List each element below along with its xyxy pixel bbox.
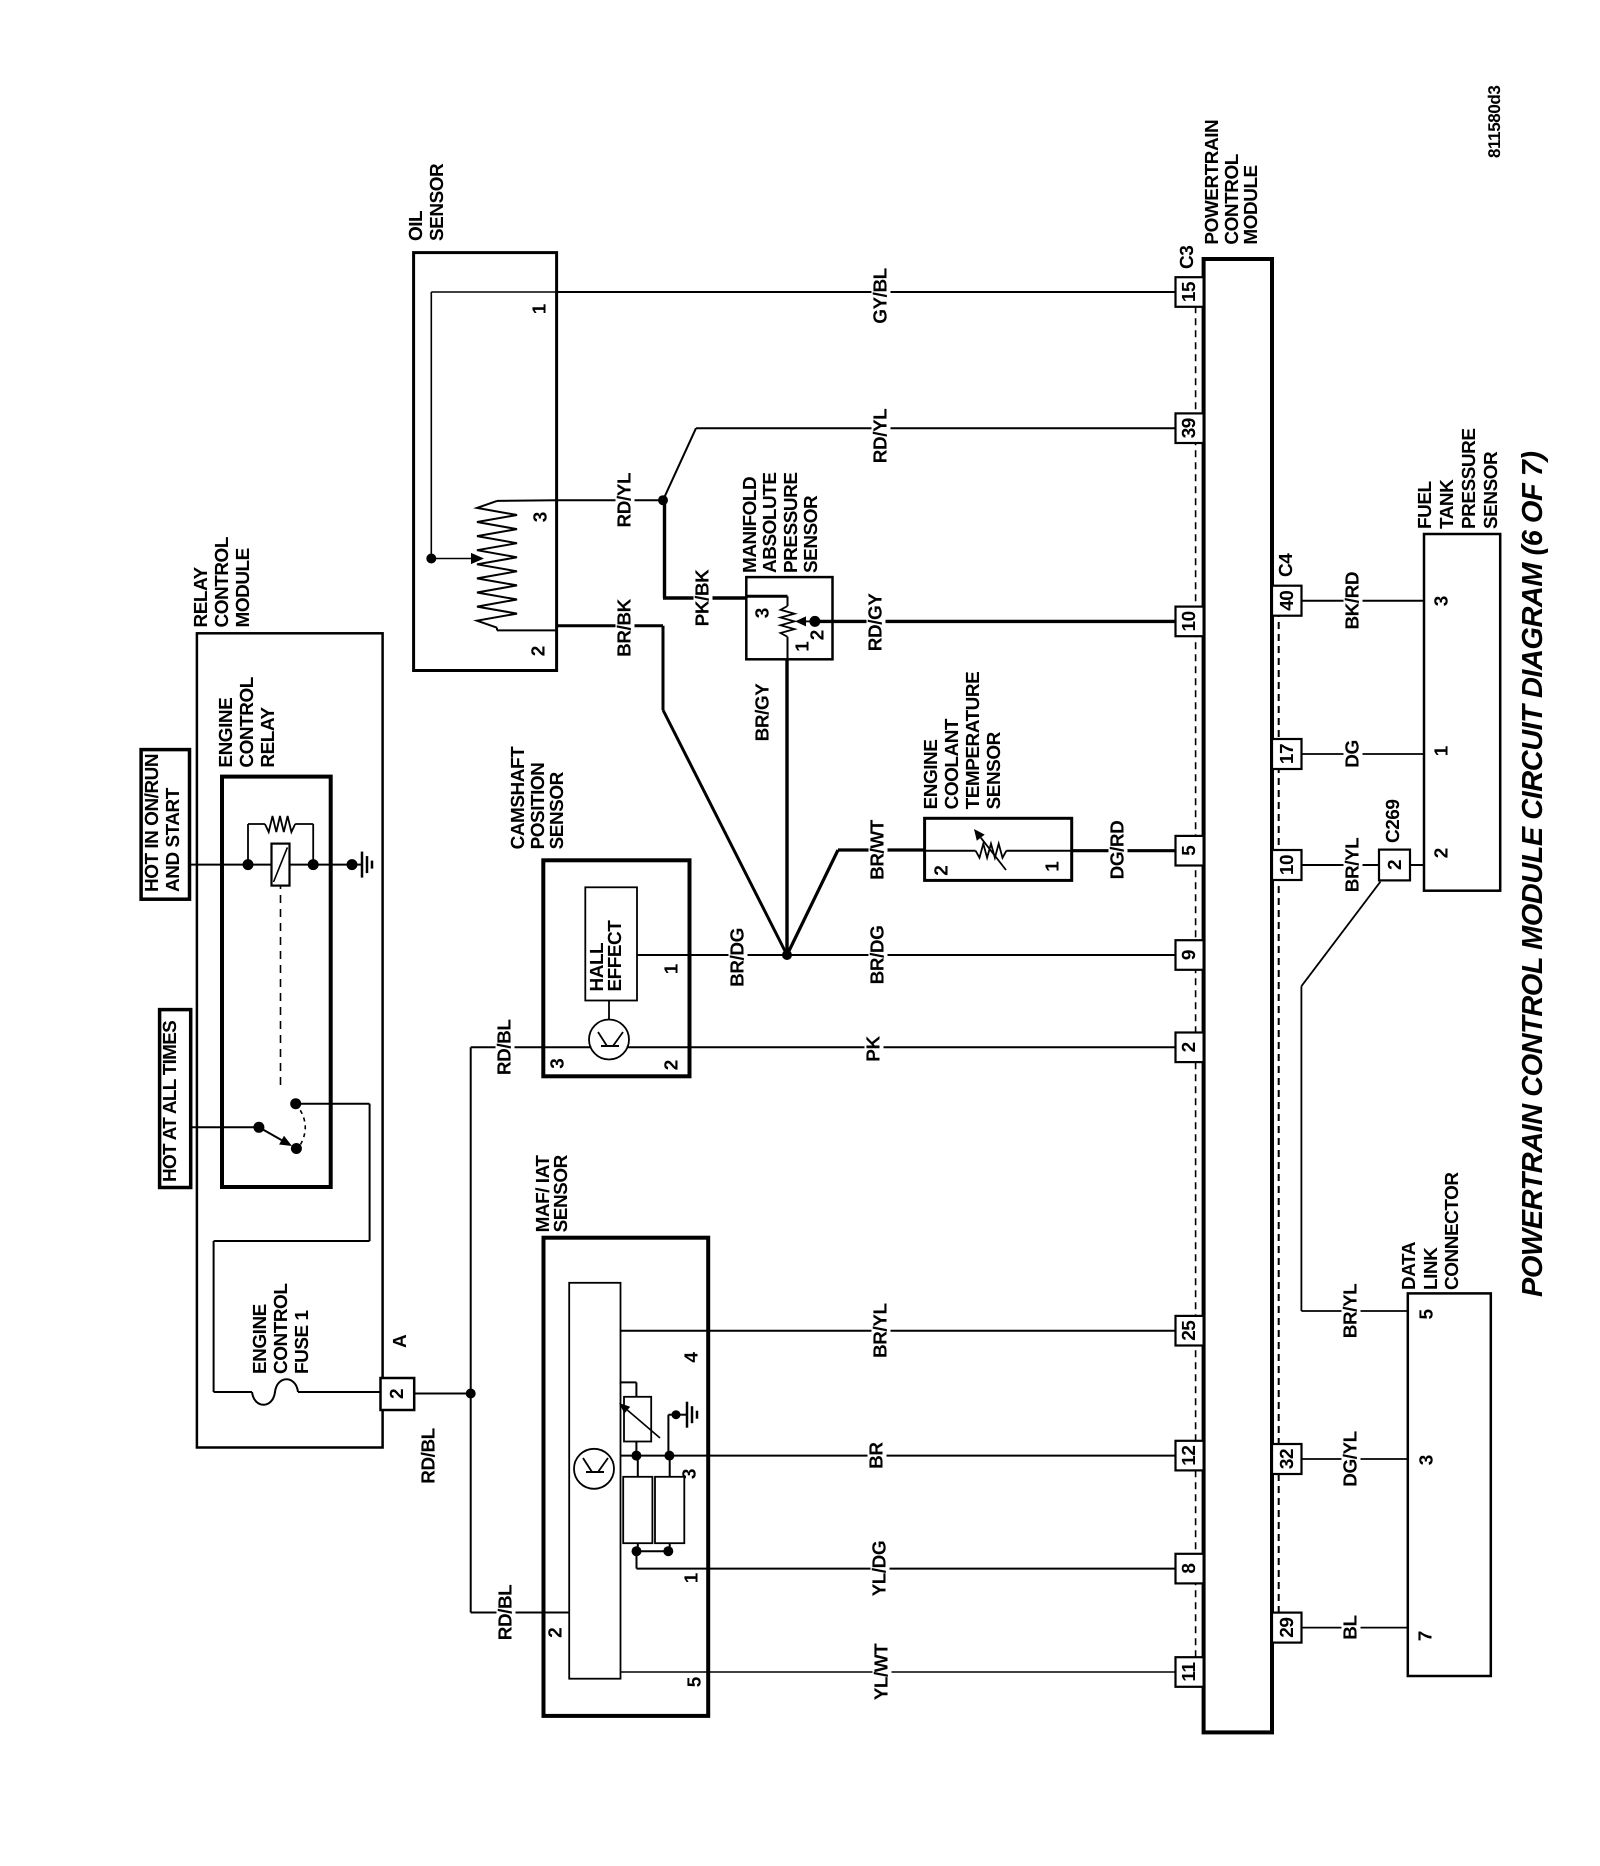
wire BR/YL PCM C4-10 to connector C269 <box>1302 864 1380 866</box>
pin label MAF pin4 <box>683 1352 702 1363</box>
pin label 17 C4 <box>1278 739 1297 769</box>
MAF pin1 link <box>636 1551 638 1568</box>
relay coil <box>272 844 290 886</box>
MAP internal pin3 wire <box>746 595 787 598</box>
wire RD/BL to camshaft pin3 <box>471 1046 544 1048</box>
pin label MAF pin1 <box>683 1573 702 1584</box>
pin label MAP pin3 <box>754 608 773 619</box>
pin label 10 C4 <box>1278 850 1297 880</box>
manifold absolute pressure sensor box <box>746 577 832 659</box>
pin label 32 C4 <box>1278 1444 1297 1474</box>
wire DG/YL PCM C4-32 to DLC pin3 <box>1302 1458 1408 1460</box>
relay parallel resistor <box>265 816 295 832</box>
wire hot-in-run feed to relay coil <box>190 864 272 866</box>
camshaft transistor marks <box>601 1045 619 1047</box>
MAP internal pin1 stub <box>787 637 789 660</box>
pin label fuel tank pin3 <box>1433 596 1452 607</box>
wire YL/WT MAF pin5 to PCM C3-11 <box>621 1671 1176 1673</box>
oil sensor pin3 stub <box>497 499 557 502</box>
MAF inner box <box>569 1283 620 1679</box>
MAF resistor right stubs <box>637 1456 639 1477</box>
PCM connector C3 dashed line <box>1195 292 1197 1657</box>
pin label oil pin3 <box>532 512 551 523</box>
wire label BR/DG <box>868 923 887 988</box>
pin label fuel tank pin1 <box>1433 746 1452 757</box>
oil sensor box <box>414 253 557 671</box>
wire RD/GY MAP pin2 to PCM C3-10 <box>815 620 1176 623</box>
wire label PK/BK <box>694 567 713 630</box>
wire label BR/YL <box>1343 835 1362 896</box>
relay coil to ground wire <box>290 864 353 866</box>
MAF resistor lower <box>655 1477 684 1543</box>
label data link connector <box>1399 1172 1464 1290</box>
MAF internal bus <box>621 1455 670 1457</box>
MAF/IAT sensor box <box>544 1238 709 1716</box>
wire hot-at-all-times feed to relay switch <box>191 1126 259 1128</box>
oil sensor pin2 stub <box>496 628 498 631</box>
MAP wiper arrow <box>806 620 815 622</box>
relay actuation dashed line <box>280 886 282 1085</box>
pin label DLC pin3 <box>1418 1455 1437 1466</box>
pin 10 C3 <box>1176 607 1204 637</box>
wire RD/YL oil pin3 segment <box>557 499 663 501</box>
label MAF/IAT sensor <box>535 1155 571 1232</box>
wire RD/BL fuse pin2 stub <box>414 1393 471 1395</box>
pin 10 C4 <box>1272 850 1302 880</box>
wire label RD/BL <box>420 1425 439 1487</box>
MAF resistor upper <box>623 1477 652 1543</box>
label connector C3 <box>1177 246 1198 269</box>
wire label RD/YL <box>872 406 891 467</box>
wire YL/DG MAF pin1 to PCM C3-8 <box>637 1568 1176 1570</box>
wire label BR/DG <box>728 925 747 990</box>
pin 39 C3 <box>1176 413 1204 443</box>
wire BR/DG junction to PCM C3-9 <box>787 954 1176 956</box>
relay switch NO contact node <box>291 1143 302 1154</box>
wire BR/BK diagonal to junction <box>663 710 787 955</box>
MAF left bus <box>637 1550 669 1552</box>
node MAF bus lower <box>664 1451 674 1461</box>
hot in on/run and start box <box>141 750 189 900</box>
hall effect box <box>585 887 637 1000</box>
pin label camshaft pin3 <box>549 1058 568 1069</box>
wire label RD/BL <box>496 1017 515 1079</box>
pin label oil pin2 <box>530 646 549 657</box>
pin label 39 C3 <box>1180 413 1199 443</box>
oil sensor wiper arrow <box>431 558 471 560</box>
wire BR/YL horizontal run <box>1300 986 1302 1311</box>
label manifold absolute pressure sensor <box>741 472 823 573</box>
data link connector box <box>1408 1293 1491 1676</box>
wire RD/YL diagonal <box>663 428 696 500</box>
MAF resistor left stubs <box>637 1543 639 1551</box>
pin 11 C3 <box>1176 1657 1204 1687</box>
label fuel tank pressure sensor <box>1415 428 1503 529</box>
label connector C269 <box>1383 800 1404 843</box>
pin label fuel tank pin2 <box>1433 848 1452 859</box>
label hall effect <box>589 921 625 992</box>
camshaft internal pin2 wire <box>627 1046 690 1048</box>
wire label DG/RD <box>1108 818 1127 883</box>
pin 2 connector C269 <box>1379 850 1410 881</box>
oil sensor internal wire pin1 <box>431 291 556 293</box>
pin 40 C4 <box>1272 586 1302 616</box>
node MAF bus upper <box>631 1451 641 1461</box>
node RD/YL junction <box>658 495 668 505</box>
wire BR/YL MAF pin4 to PCM C3-25 <box>621 1330 1176 1332</box>
wire label BR <box>868 1439 887 1471</box>
pin label 5 C3 <box>1180 836 1199 866</box>
wire label YL/WT <box>873 1641 892 1704</box>
node MAF left bus lower <box>663 1546 673 1556</box>
engine control relay box <box>222 777 331 1187</box>
fuse feed wire upper <box>214 1391 252 1393</box>
wire BR/DG camshaft pin1 to junction <box>637 954 787 956</box>
wire label DG <box>1343 737 1362 771</box>
wire BR/BK oil pin2 <box>557 624 663 627</box>
pin label 12 C3 <box>1180 1441 1199 1471</box>
camshaft hall box pin1 wire <box>637 954 690 956</box>
pin label MAP pin2 <box>809 630 828 641</box>
pin label oil pin1 <box>531 304 550 315</box>
label connector A <box>390 1335 411 1348</box>
pin label 2 fuse <box>388 1378 407 1410</box>
MAF variable resistor (IAT element) <box>624 1397 651 1442</box>
wire BR/WT diagonal junction to ECT <box>787 850 838 955</box>
wire DG/RD ECT pin1 to PCM C3-5 <box>1072 849 1176 852</box>
MAF transistor circle <box>574 1449 614 1489</box>
wire RD/BL trunk <box>470 1047 472 1612</box>
pin label 29 C4 <box>1278 1613 1297 1643</box>
wire BK/RD PCM C4-40 to fuel tank sensor pin3 <box>1302 600 1425 602</box>
node MAF left bus upper <box>632 1546 642 1556</box>
label engine control fuse 1 <box>250 1284 313 1374</box>
wire label BR/YL <box>872 1300 891 1361</box>
node BR junction <box>782 950 792 960</box>
pin label camshaft pin1 <box>662 964 681 975</box>
wire label BR/GY <box>753 681 772 745</box>
PCM connector C4 dashed line <box>1278 594 1280 1613</box>
wire label BR/WT <box>869 817 888 883</box>
document code 811580d3 <box>1485 86 1505 158</box>
pin label 8 C3 <box>1180 1554 1199 1584</box>
wire BR/YL down to DLC pin5 <box>1301 1310 1407 1312</box>
wire BR/GY MAP pin1 to junction <box>785 659 788 955</box>
label hot in on/run and start <box>142 754 184 892</box>
wire label GY/BL <box>871 265 890 327</box>
MAF variable resistor left stub <box>635 1442 637 1456</box>
pin 15 C3 <box>1176 277 1204 307</box>
label engine coolant temperature sensor <box>921 672 1005 810</box>
ECT internal wire <box>925 850 976 852</box>
ECT thermistor resistor <box>976 844 1007 858</box>
label connector C4 <box>1276 554 1297 577</box>
ground relay <box>350 864 362 866</box>
pin label MAP pin1 <box>794 641 813 652</box>
relay ground node <box>347 859 358 870</box>
pin label 2 C269 <box>1386 850 1405 881</box>
camshaft internal pin3 wire <box>543 1046 591 1048</box>
fuel tank pressure sensor box <box>1424 534 1500 891</box>
ECT thermistor arrow <box>981 838 1006 870</box>
label oil sensor <box>406 164 448 241</box>
pin label 15 C3 <box>1180 277 1199 307</box>
pin label 10 C3 <box>1180 607 1199 637</box>
wire label BK/RD <box>1343 569 1362 633</box>
pin label 2 C3 <box>1180 1033 1199 1063</box>
node RD/BL junction <box>466 1389 476 1399</box>
pin label camshaft pin2 <box>662 1060 681 1071</box>
label hot at all times <box>160 1021 181 1182</box>
pin label DLC pin5 <box>1418 1309 1437 1320</box>
label powertrain control module <box>1203 120 1262 245</box>
wire label RD/YL <box>616 470 635 531</box>
wire PK camshaft pin2 to PCM C3-2 <box>690 1046 1176 1048</box>
wire BL PCM C4-29 to DLC pin7 <box>1302 1627 1408 1629</box>
label camshaft position sensor <box>509 747 568 850</box>
pin label 25 C3 <box>1180 1316 1199 1346</box>
pin label ECT pin2 <box>932 865 951 876</box>
wire label BL <box>1342 1612 1361 1642</box>
MAF variable resistor to inner box stub <box>635 1382 637 1396</box>
pin 25 C3 <box>1176 1316 1204 1346</box>
MAF ground link <box>667 1415 669 1456</box>
relay resistor loop <box>247 824 249 865</box>
wire label YL/DG <box>871 1538 890 1600</box>
camshaft position sensor box <box>543 860 689 1076</box>
label engine control relay <box>216 677 279 767</box>
wire DG PCM C4-17 to fuel tank sensor pin1 <box>1302 753 1425 755</box>
MAF ground node <box>672 1410 681 1419</box>
relay switch arm arrow <box>259 1127 282 1140</box>
hot at all times box <box>160 1010 191 1188</box>
engine coolant temperature sensor box <box>925 818 1072 880</box>
relay switch common node <box>253 1122 264 1133</box>
wire label BR/YL <box>1342 1281 1361 1342</box>
ground MAF <box>675 1414 687 1416</box>
camshaft hall box lead <box>608 1001 610 1020</box>
pin 2 C3 <box>1176 1033 1204 1063</box>
relay switch NC contact node <box>290 1098 301 1109</box>
MAF ground stub <box>668 1414 680 1416</box>
camshaft hall-cell transistor circle <box>589 1020 629 1060</box>
powertrain control module box <box>1204 259 1272 1732</box>
wire label RD/GY <box>867 591 886 655</box>
pin 8 C3 <box>1176 1554 1204 1584</box>
MAP sensor resistor <box>781 606 795 637</box>
wire RD/YL to PCM C3-39 <box>696 427 1176 429</box>
pin label 40 C4 <box>1278 586 1297 616</box>
label relay control module <box>191 537 254 627</box>
pin 29 C4 <box>1272 1613 1302 1643</box>
fuse output wire to pin2 <box>298 1391 381 1393</box>
relay coil diagonal <box>274 847 288 882</box>
pin 2 fuse output connector <box>381 1378 415 1410</box>
pin 9 C3 <box>1176 940 1204 970</box>
pin 5 C3 <box>1176 836 1204 866</box>
pin label 9 C3 <box>1180 940 1199 970</box>
wire PK/BK junction to MAP pin3 <box>663 500 666 598</box>
wire C269 to fuel tank sensor pin2 <box>1410 864 1424 866</box>
MAP wiper node <box>809 616 820 627</box>
relay control module box <box>197 633 383 1447</box>
oil sensor wiper node <box>426 554 436 564</box>
oil sensor potentiometer resistor <box>477 501 517 628</box>
pin label MAF pin2 <box>547 1627 566 1638</box>
pin label MAF pin3 <box>681 1469 700 1480</box>
wire GY/BL oil pin1 to PCM C3-15 <box>557 291 1176 293</box>
pin label MAF pin5 <box>686 1677 705 1688</box>
pin label ECT pin1 <box>1044 861 1063 872</box>
relay switch dashed throw arc <box>296 1104 306 1147</box>
wire RD/BL to MAF pin2 <box>471 1612 570 1614</box>
wire BR MAF pin3 to PCM C3-12 <box>669 1455 1175 1457</box>
node relay coil right <box>308 859 319 870</box>
title text <box>1517 451 1550 1297</box>
pin label 11 C3 <box>1180 1657 1199 1687</box>
wire label PK <box>864 1033 883 1064</box>
pin label DLC pin7 <box>1417 1631 1436 1642</box>
node relay coil left <box>243 859 254 870</box>
wire label RD/BL <box>497 1582 516 1644</box>
MAF variable resistor arrow <box>627 1410 660 1438</box>
wire label DG/YL <box>1342 1428 1361 1490</box>
pin 12 C3 <box>1176 1441 1204 1471</box>
wire label BR/BK <box>616 596 635 660</box>
MAF transistor marks <box>586 1471 604 1473</box>
wire BR/YL C269 to data link connector diagonal <box>1301 882 1380 987</box>
pin 32 C4 <box>1272 1444 1302 1474</box>
fuse ENGINE CONTROL FUSE 1 element <box>252 1379 298 1405</box>
pin 17 C4 <box>1272 739 1302 769</box>
relay output wire <box>296 1103 370 1105</box>
